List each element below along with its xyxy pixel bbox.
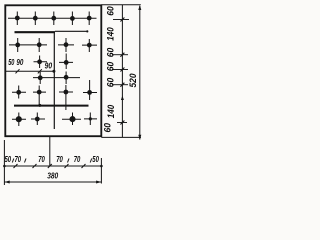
row4 line — [33, 77, 80, 79]
overall dimension line 520 — [139, 6, 141, 140]
sep t2 — [25, 159, 27, 163]
dim end dot — [52, 70, 55, 73]
row1 centerline — [8, 17, 97, 19]
svg-text:60: 60 — [106, 62, 116, 72]
ext r2 — [112, 54, 128, 56]
sep t1 — [12, 159, 14, 163]
bolt B3 — [64, 38, 69, 52]
tick r2 — [120, 53, 124, 57]
svg-text:140: 140 — [106, 105, 116, 119]
chain end dot right — [100, 165, 103, 168]
bottom extension line — [101, 136, 141, 138]
bolt A5 — [87, 12, 92, 26]
top extension line — [101, 4, 141, 6]
arrow 380 left — [4, 181, 9, 184]
bolt E3 — [64, 85, 69, 110]
chain end dot left — [3, 165, 6, 168]
arrow 380 right — [96, 181, 101, 184]
chain arrow up — [121, 96, 124, 101]
svg-text:50: 50 — [5, 155, 12, 164]
bolt A1 — [15, 12, 20, 26]
tick r1 — [120, 18, 124, 22]
bolt D2 — [64, 72, 69, 85]
bolt D1 — [38, 72, 43, 84]
tick r3 — [120, 68, 124, 72]
arrow 520 top — [138, 5, 141, 10]
bar junction dot — [38, 104, 41, 107]
svg-text:50: 50 — [92, 155, 99, 164]
bolt B1 — [15, 38, 20, 52]
upper flange bar — [15, 31, 56, 33]
bolt F1 — [16, 113, 22, 127]
overall dimension line 380 — [4, 181, 101, 183]
bolt E2 — [37, 86, 42, 106]
tick b5 — [82, 164, 86, 168]
svg-text:60: 60 — [106, 48, 116, 58]
svg-text:70: 70 — [56, 155, 63, 164]
inner vertical edge — [53, 32, 55, 130]
sep t3 — [68, 159, 70, 163]
bolt F3 — [69, 113, 75, 126]
ext r5 — [117, 122, 127, 124]
svg-text:140: 140 — [106, 27, 116, 41]
tick b4 — [65, 164, 69, 168]
bolt F4 — [89, 113, 92, 126]
svg-text:70: 70 — [38, 155, 45, 164]
bolt C2 — [64, 54, 69, 70]
tick i1 — [16, 69, 20, 73]
plate outline — [5, 5, 101, 136]
svg-text:90: 90 — [45, 61, 53, 70]
ext r1 — [113, 19, 129, 21]
row3 arms — [34, 61, 74, 64]
sep t4 — [90, 159, 92, 163]
svg-text:60: 60 — [103, 123, 113, 133]
right chain dimension line — [121, 5, 123, 138]
row5 arms — [12, 91, 97, 94]
bolt E1 — [16, 86, 21, 99]
edge end blob — [86, 30, 88, 32]
tick b1 — [14, 164, 18, 168]
tick b2 — [33, 164, 37, 168]
bolt B4 — [87, 39, 92, 52]
tick i2 — [38, 69, 42, 73]
bolt F2 — [35, 113, 40, 126]
tick r5 — [120, 121, 124, 125]
bolt A2 — [33, 12, 38, 26]
svg-text:60: 60 — [106, 6, 116, 16]
svg-text:70: 70 — [15, 155, 22, 164]
bolt A4 — [70, 12, 75, 26]
svg-text:520: 520 — [128, 74, 138, 88]
bolt B2 — [37, 38, 42, 52]
ext r4 — [112, 84, 128, 86]
bolt A3 — [51, 12, 56, 26]
svg-text:70: 70 — [74, 155, 81, 164]
svg-text:60: 60 — [106, 78, 116, 88]
tick r4 — [120, 83, 124, 87]
svg-text:380: 380 — [47, 171, 58, 180]
right extension line bottom — [100, 158, 102, 184]
left extension line bottom — [3, 140, 5, 185]
arrow 520 bottom — [138, 135, 141, 140]
mid extension line bottom — [49, 137, 51, 166]
svg-text:90: 90 — [16, 58, 23, 67]
inner dimension line — [6, 70, 54, 72]
ext r3 — [112, 69, 128, 71]
row6 arms — [12, 118, 97, 120]
bolt C1 — [37, 56, 42, 69]
upper edge line — [55, 30, 88, 32]
bolt E4 — [87, 80, 92, 100]
svg-text:50: 50 — [8, 58, 15, 67]
bottom chain dimension line — [4, 165, 101, 167]
row2 arms — [9, 44, 97, 46]
lower flange bar — [14, 105, 89, 107]
tick b3 — [48, 164, 52, 168]
